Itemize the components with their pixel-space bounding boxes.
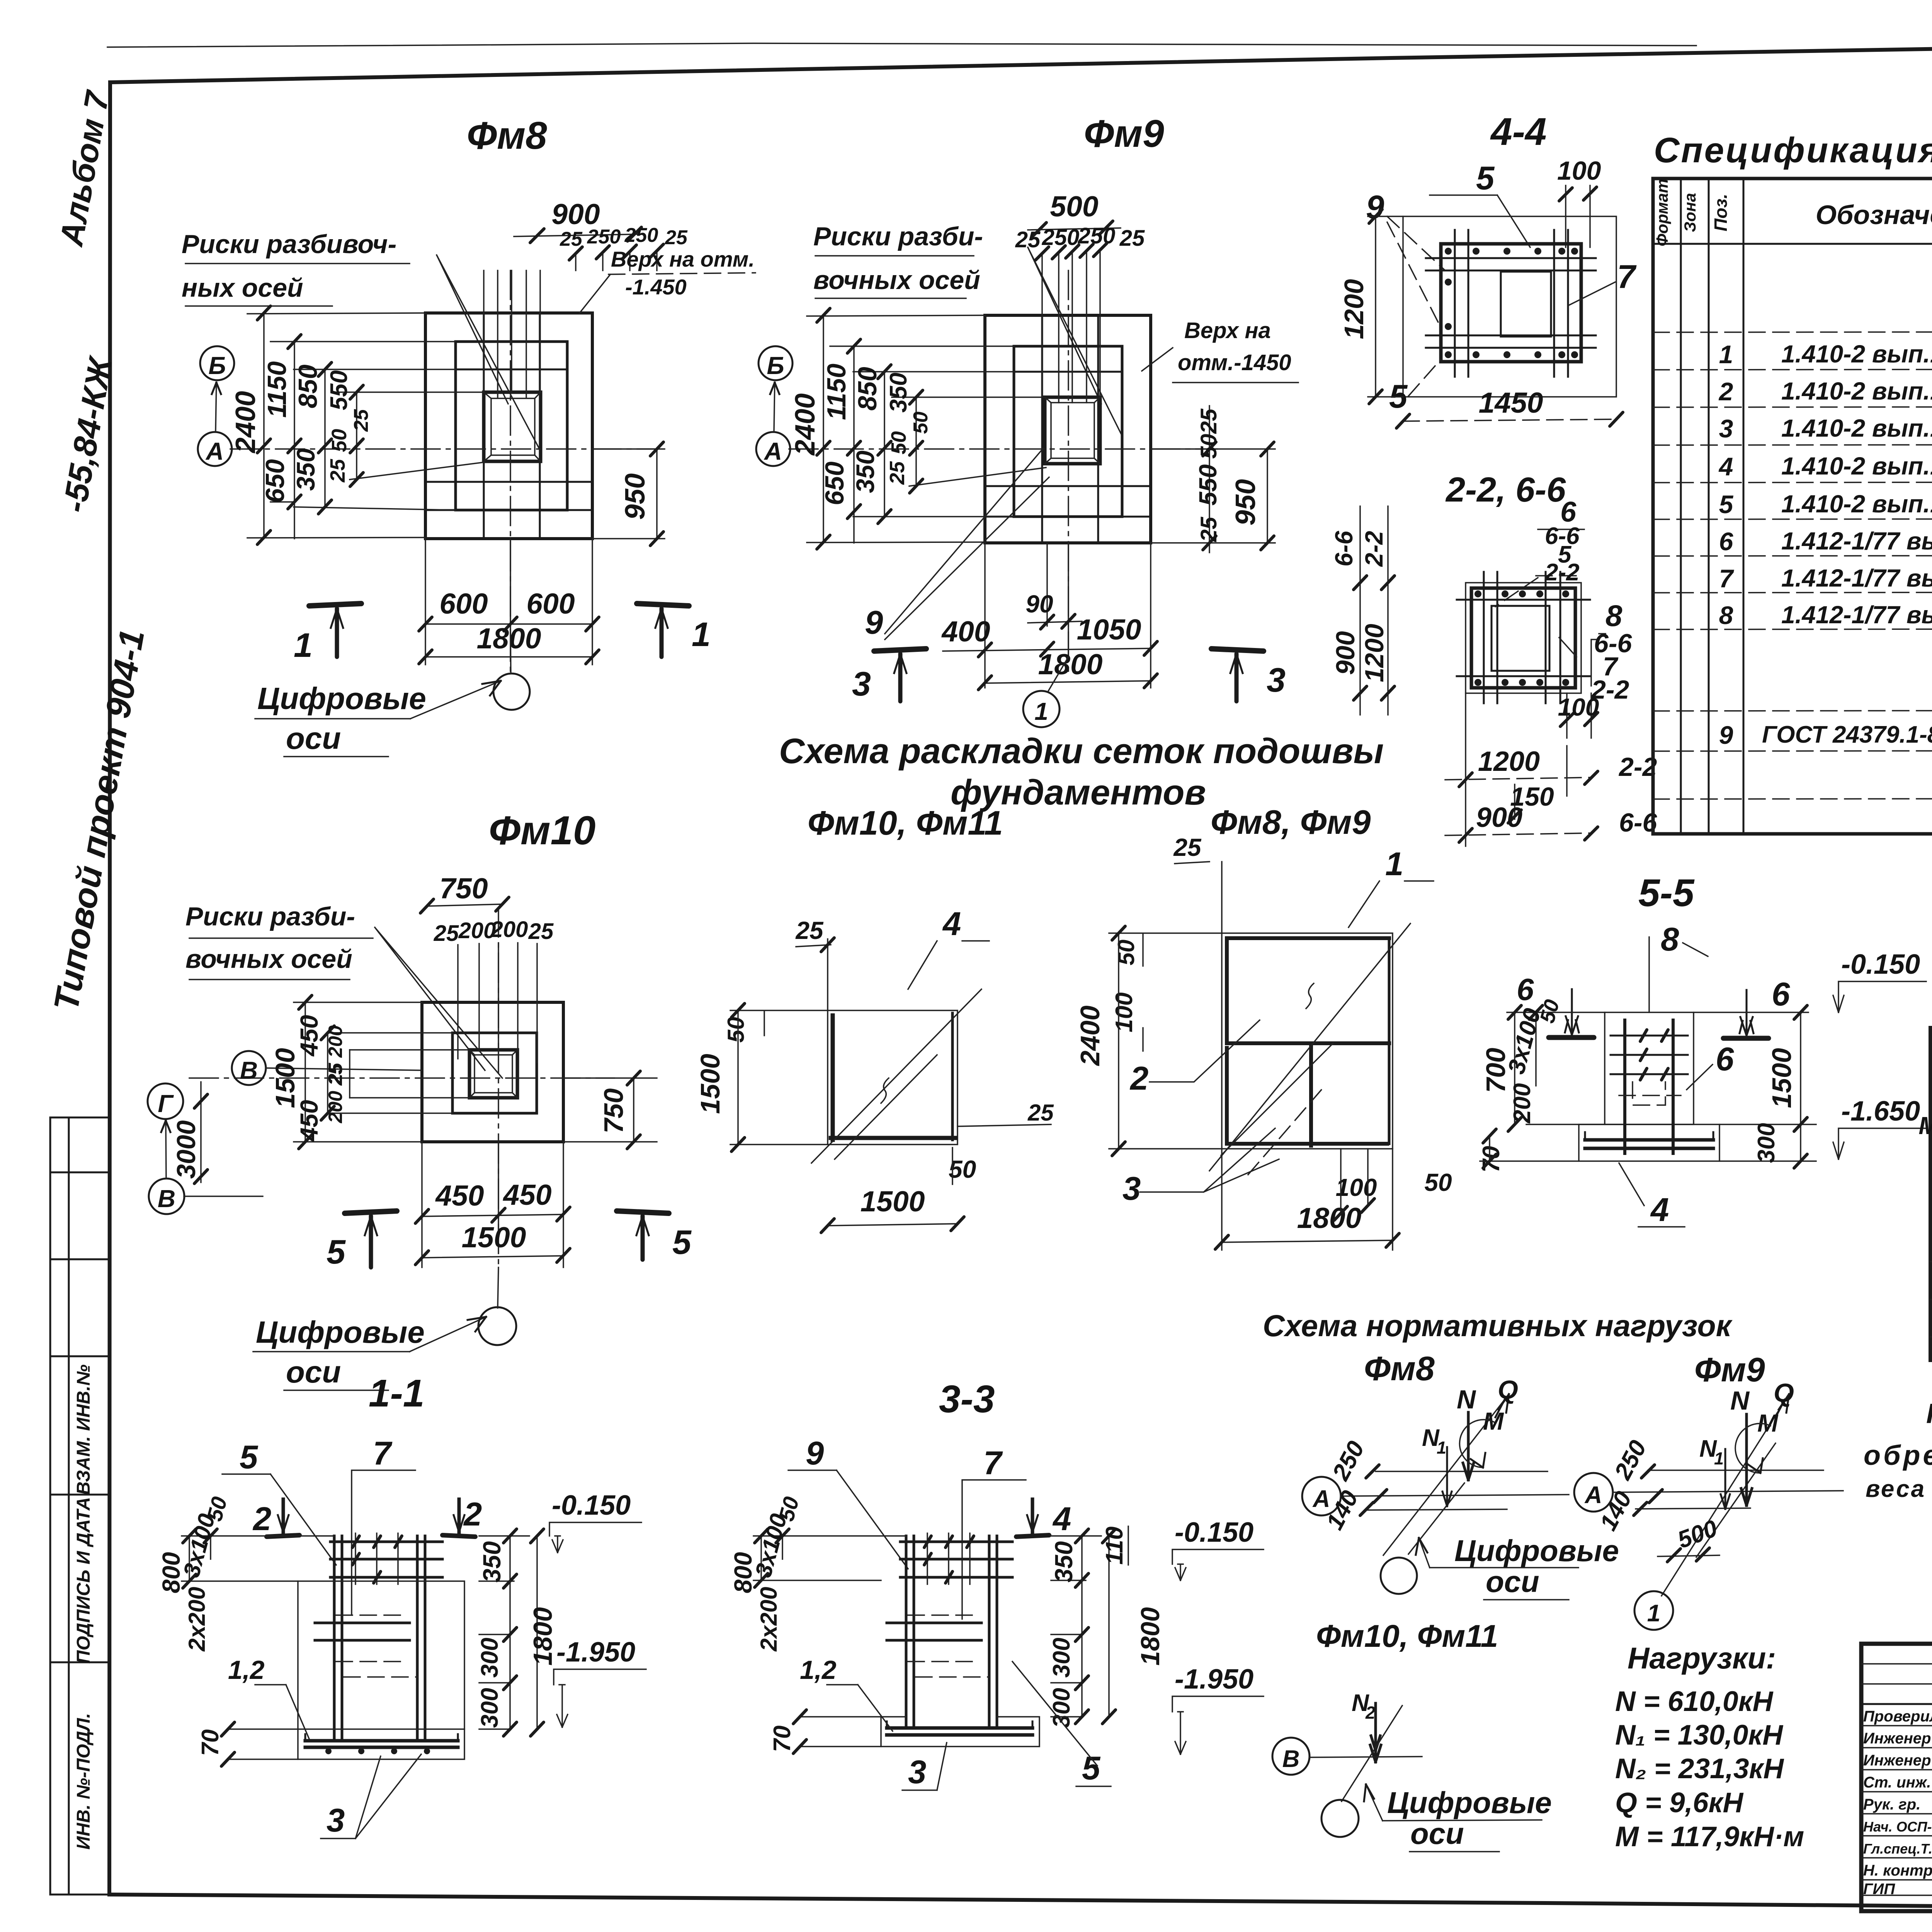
band lines [425,369,592,510]
svg-text:1800: 1800 [1038,648,1103,680]
frame top [110,36,1932,82]
svg-text:8: 8 [1719,601,1733,629]
svg-text:Схема раскладки сеток подошвы: Схема раскладки сеток подошвы [779,731,1384,771]
svg-text:Марка элемента: Марка элемента [1918,1112,1932,1139]
svg-text:Цифровые: Цифровые [1454,1534,1619,1568]
svg-text:обрезу фундаментов без учет: обрезу фундаментов без учета нагрузок на… [1864,1440,1932,1471]
svg-text:4: 4 [942,906,961,942]
svg-text:1-1: 1-1 [369,1372,425,1415]
right dims [1694,1012,1816,1161]
svg-text:3: 3 [1122,1170,1141,1207]
svg-text:7: 7 [373,1435,393,1472]
svg-text:Проверил: Проверил [1863,1708,1932,1725]
svg-text:2-2: 2-2 [1360,531,1388,567]
svg-text:250: 250 [624,224,658,247]
svg-text:1: 1 [1714,1449,1724,1468]
svg-text:25: 25 [326,459,349,483]
svg-text:1.410-2 вып.1: 1.410-2 вып.1 [1781,377,1932,405]
mesh mid dashed [315,1623,410,1640]
svg-text:1800: 1800 [1297,1202,1362,1234]
svg-text:1,2: 1,2 [228,1655,265,1685]
svg-text:2: 2 [252,1501,271,1537]
svg-text:Фм9: Фм9 [1084,112,1164,155]
vertical bars [1625,1020,1673,1153]
left dims [294,1002,422,1142]
svg-text:ВЗАМ. ИНВ.№: ВЗАМ. ИНВ.№ [73,1364,94,1495]
svg-text:2-2, 6-6: 2-2, 6-6 [1445,471,1566,509]
svg-text:50: 50 [1424,1168,1452,1196]
svg-text:-1.950: -1.950 [556,1637,635,1668]
svg-text:350: 350 [291,448,320,491]
svg-text:7: 7 [1617,259,1637,295]
svg-text:100: 100 [1336,1173,1377,1201]
svg-text:900: 900 [1476,802,1522,833]
svg-text:1500: 1500 [1767,1048,1797,1108]
svg-text:оси: оси [1486,1565,1539,1599]
plan step [456,342,567,510]
svg-text:25: 25 [1196,408,1221,434]
svg-text:отм.-1450: отм.-1450 [1178,350,1291,375]
svg-text:оси: оси [1410,1816,1464,1850]
svg-text:2: 2 [463,1496,482,1533]
svg-text:6-6: 6-6 [1330,531,1358,566]
svg-text:850: 850 [293,364,323,408]
svg-text:2x200: 2x200 [756,1587,782,1652]
svg-text:1200: 1200 [1360,624,1389,682]
svg-text:2-2: 2-2 [1544,559,1580,586]
axis circles [200,346,234,380]
svg-text:Нагрузки:: Нагрузки: [1628,1641,1776,1675]
2 arrows [267,1535,299,1537]
bolt mesh square [1441,244,1581,362]
right dim 950 [592,449,665,539]
svg-text:6: 6 [1716,1041,1734,1078]
svg-text:450: 450 [295,1015,323,1057]
svg-text:100: 100 [1557,156,1601,185]
plan outer [985,315,1151,543]
svg-text:3: 3 [1719,414,1733,443]
svg-text:70: 70 [197,1730,224,1756]
svg-text:25: 25 [1119,226,1145,251]
4 arrow [1016,1535,1049,1537]
svg-text:3-3: 3-3 [939,1378,995,1421]
svg-text:Фм10: Фм10 [489,808,595,853]
svg-text:900: 900 [1331,631,1360,675]
svg-text:70: 70 [769,1726,796,1752]
svg-text:Зона: Зона [1681,193,1699,232]
svg-text:300: 300 [1048,1638,1075,1677]
svg-text:М = 117,9кН·м: М = 117,9кН·м [1615,1821,1804,1852]
svg-text:25: 25 [434,921,459,946]
svg-text:-1.450: -1.450 [625,275,687,299]
verticals [1681,179,1932,834]
svg-text:ПОДПИСЬ И ДАТА: ПОДПИСЬ И ДАТА [73,1497,94,1663]
svg-text:250: 250 [587,226,621,248]
svg-text:9: 9 [1719,721,1733,749]
svg-text:1,2: 1,2 [800,1655,837,1685]
svg-text:оси: оси [286,1355,341,1389]
right dims rotated [1151,449,1275,543]
svg-text:Фм8, Фм9: Фм8, Фм9 [1211,803,1371,841]
svg-text:550: 550 [326,370,352,410]
svg-text:50: 50 [328,429,351,452]
svg-text:N₁ = 130,0кН: N₁ = 130,0кН [1615,1719,1783,1751]
svg-text:Гл.спец.Т.О.: Гл.спец.Т.О. [1863,1841,1932,1857]
outer thin square [1403,216,1616,397]
svg-text:6: 6 [1719,527,1734,556]
plan [422,1002,563,1142]
svg-text:350: 350 [1050,1541,1078,1583]
svg-text:350: 350 [851,451,879,493]
svg-text:1800: 1800 [477,622,541,655]
svg-text:-0.150: -0.150 [552,1490,631,1521]
svg-text:9: 9 [865,604,883,641]
svg-text:N₂ = 231,3кН: N₂ = 231,3кН [1615,1753,1784,1784]
footing [1579,1124,1719,1161]
left dims [182,1536,334,1581]
svg-text:4: 4 [1718,452,1733,481]
svg-text:Инженер: Инженер [1863,1730,1931,1747]
svg-text:5: 5 [1082,1750,1101,1787]
svg-text:3000: 3000 [172,1120,201,1179]
svg-text:4: 4 [1650,1192,1669,1228]
svg-text:1800: 1800 [528,1607,558,1665]
svg-text:1.410-2 вып.1: 1.410-2 вып.1 [1781,414,1932,442]
svg-text:Верх на: Верх на [1184,318,1271,343]
svg-text:1: 1 [294,626,313,664]
svg-text:Риски разби-: Риски разби- [185,902,355,931]
svg-text:350: 350 [478,1541,506,1583]
svg-text:Рук. гр.: Рук. гр. [1863,1796,1920,1813]
frame left [109,82,110,1895]
svg-text:50: 50 [723,1017,749,1043]
svg-text:6: 6 [1517,972,1534,1007]
svg-text:1500: 1500 [695,1054,725,1114]
svg-text:Формат: Формат [1653,179,1671,246]
svg-text:5: 5 [1476,160,1495,197]
svg-text:90: 90 [1026,590,1053,618]
svg-text:1: 1 [1647,1600,1660,1627]
svg-text:Поз.: Поз. [1711,194,1731,231]
left dims [753,1536,906,1580]
svg-text:1.410-2 вып.1: 1.410-2 вып.1 [1781,340,1932,368]
svg-text:5: 5 [1719,490,1734,519]
svg-text:1.410-2 вып.1: 1.410-2 вып.1 [1781,452,1932,480]
column [1605,1012,1694,1124]
svg-text:А: А [764,437,782,465]
svg-text:750: 750 [439,872,488,905]
right scheme Fm9 [1574,1473,1613,1512]
ground marks with 6 arrows [1549,1035,1594,1040]
svg-text:Риски разби-: Риски разби- [813,222,983,251]
svg-text:1500: 1500 [462,1221,526,1253]
svg-text:Фм8: Фм8 [467,114,547,157]
section marks 3 [874,649,926,651]
svg-text:450: 450 [502,1179,551,1211]
signature rows [1861,1664,1932,1684]
svg-text:Ст. инж.: Ст. инж. [1863,1774,1931,1791]
svg-text:25: 25 [795,917,824,944]
svg-text:4: 4 [1052,1501,1071,1537]
svg-text:5: 5 [240,1439,259,1476]
svg-text:25: 25 [1015,227,1041,252]
svg-text:Б: Б [208,352,226,379]
svg-text:750: 750 [599,1088,629,1134]
svg-text:Б: Б [767,352,784,379]
svg-text:300: 300 [476,1638,503,1677]
svg-text:3: 3 [327,1802,345,1839]
svg-text:1.410-2 вып.1: 1.410-2 вып.1 [1781,490,1932,518]
svg-text:450: 450 [295,1100,323,1142]
svg-text:600: 600 [439,587,488,620]
svg-text:1150: 1150 [822,364,851,420]
svg-text:Схема нормативных нагрузок: Схема нормативных нагрузок [1263,1308,1733,1343]
svg-text:1500: 1500 [861,1185,925,1218]
svg-text:1150: 1150 [262,361,292,418]
svg-text:50: 50 [1113,940,1139,966]
svg-text:оси: оси [286,721,341,755]
svg-text:ных осей: ных осей [182,273,303,303]
svg-text:2: 2 [1365,1703,1375,1723]
svg-text:25: 25 [350,409,372,432]
light row lines [1653,331,1932,799]
svg-text:650: 650 [260,459,290,503]
svg-text:1: 1 [1437,1438,1446,1458]
svg-text:Нач. ОСП-1: Нач. ОСП-1 [1863,1819,1932,1835]
svg-text:3: 3 [908,1754,926,1791]
svg-text:Фм9: Фм9 [1694,1350,1765,1389]
svg-text:Фм10, Фм11: Фм10, Фм11 [1316,1619,1498,1654]
bottom dims [1567,693,1591,738]
svg-text:Верх на отм.: Верх на отм. [611,247,755,271]
svg-text:7: 7 [983,1445,1003,1481]
svg-text:950: 950 [1230,479,1261,526]
svg-text:4-4: 4-4 [1490,110,1547,153]
frame bottom [109,1895,1932,1912]
svg-text:50: 50 [910,412,932,434]
svg-text:1: 1 [1719,340,1733,369]
svg-text:2-2: 2-2 [1618,752,1657,782]
column pocket [484,392,541,461]
axis lines [230,448,657,450]
svg-text:1200: 1200 [1339,279,1369,339]
top tear line [107,43,1696,47]
svg-text:100: 100 [1558,693,1599,721]
svg-text:Фм10, Фм11: Фм10, Фм11 [808,804,1003,842]
svg-text:200: 200 [1509,1083,1536,1123]
column bars [334,1536,425,1739]
plan outer [425,313,592,539]
svg-text:2: 2 [1718,377,1733,406]
footing bars [305,1741,458,1747]
svg-text:350: 350 [885,372,912,412]
svg-text:1050: 1050 [1077,613,1141,646]
svg-text:450: 450 [435,1179,484,1212]
svg-text:8: 8 [1661,921,1679,958]
svg-text:ИНВ. №-ПОДЛ.: ИНВ. №-ПОДЛ. [73,1713,94,1850]
svg-text:2: 2 [1129,1060,1148,1097]
svg-text:50: 50 [1196,434,1221,459]
axis circle 1 [1023,691,1060,727]
svg-text:вочных осей: вочных осей [185,944,352,974]
pit outline [298,1581,464,1729]
bottom dims [422,1142,563,1267]
svg-text:Цифровые: Цифровые [1387,1786,1552,1820]
svg-text:500: 500 [1050,190,1098,223]
svg-text:-1.950: -1.950 [1175,1664,1253,1695]
svg-text:Обозначение: Обозначение [1816,200,1932,230]
svg-text:А: А [1312,1486,1330,1512]
svg-text:Q: Q [1498,1375,1518,1405]
svg-text:25: 25 [528,919,554,944]
svg-text:100: 100 [1111,992,1138,1032]
svg-text:Г: Г [158,1090,174,1117]
svg-text:550: 550 [1194,464,1222,506]
svg-text:5: 5 [327,1233,346,1271]
svg-text:Цифровые: Цифровые [256,1315,425,1349]
svg-text:Q = 9,6кН: Q = 9,6кН [1615,1787,1743,1818]
left stamp column [47,87,152,1895]
bottom dims [985,543,1151,688]
section marks 1-1 [309,604,361,606]
svg-text:7: 7 [1719,564,1735,593]
axis circles [232,1051,266,1085]
svg-text:5-5: 5-5 [1638,871,1695,915]
right grid square Fm8 Fm9 [1222,933,1393,1149]
svg-text:2400: 2400 [790,393,821,456]
svg-text:Фм8: Фм8 [1364,1349,1435,1388]
svg-text:850: 850 [853,367,882,411]
svg-text:1200: 1200 [1478,746,1540,777]
svg-text:300: 300 [1753,1123,1780,1163]
svg-text:200: 200 [490,917,528,942]
svg-text:950: 950 [620,473,651,520]
left grid square [828,1010,957,1145]
svg-text:2400: 2400 [230,391,261,454]
svg-text:В: В [158,1185,175,1213]
svg-text:25: 25 [1173,833,1202,861]
svg-text:1.412-1/77 вып.3: 1.412-1/77 вып.3 [1781,527,1932,555]
svg-text:2x200: 2x200 [184,1587,210,1652]
bolt mesh square [1466,583,1581,693]
svg-text:2400: 2400 [1075,1005,1105,1066]
svg-text:200 25: 200 25 [325,1063,346,1123]
svg-text:Инженер: Инженер [1863,1752,1931,1769]
svg-text:1500: 1500 [270,1048,300,1108]
svg-text:-0.150: -0.150 [1175,1517,1253,1548]
svg-text:1.412-1/77 вып.3: 1.412-1/77 вып.3 [1781,601,1932,629]
svg-text:50: 50 [887,431,910,454]
svg-text:650: 650 [820,461,849,505]
svg-text:1: 1 [692,615,711,653]
left dim chains [264,313,357,539]
svg-text:9: 9 [806,1435,824,1472]
mesh horizontals [1611,1036,1688,1074]
svg-text:вочных осей: вочных осей [813,265,980,295]
svg-text:250: 250 [1078,223,1116,248]
svg-text:6: 6 [1772,976,1790,1013]
svg-text:1: 1 [1034,697,1048,725]
svg-text:Нагрузки на фундаменты даны: Нагрузки на фундаменты даны по верхнему [1926,1398,1932,1429]
svg-text:110: 110 [1101,1527,1128,1565]
footing bars [1585,1140,1713,1148]
svg-text:1800: 1800 [1136,1607,1165,1665]
svg-text:А: А [205,437,224,465]
svg-text:1450: 1450 [1479,386,1543,419]
bottom dims [425,539,592,665]
svg-text:3: 3 [1267,661,1286,699]
svg-text:N: N [1730,1386,1750,1415]
svg-text:А: А [1584,1482,1602,1509]
svg-text:25: 25 [665,226,688,249]
svg-text:1.412-1/77 вып.3: 1.412-1/77 вып.3 [1781,564,1932,592]
svg-text:3: 3 [852,665,871,703]
svg-text:веса фундамента и грунта на: веса фундамента и грунта на его уступах. [1866,1476,1932,1502]
left scheme Fm8 [1302,1477,1341,1515]
svg-text:600: 600 [526,587,575,620]
svg-text:5: 5 [672,1223,692,1261]
svg-text:В: В [1282,1746,1300,1772]
svg-text:25: 25 [560,228,583,250]
svg-text:ГОСТ 24379.1-80: ГОСТ 24379.1-80 [1762,721,1932,748]
svg-text:25: 25 [1196,517,1221,542]
svg-text:Q: Q [1774,1378,1794,1408]
svg-text:Н. контр.: Н. контр. [1863,1862,1932,1879]
svg-text:300: 300 [476,1688,503,1728]
svg-text:-0.150: -0.150 [1841,949,1920,980]
svg-text:-1.650: -1.650 [1841,1096,1920,1127]
header [1653,211,1932,244]
svg-text:25: 25 [1027,1100,1054,1126]
left dims [1507,1012,1605,1124]
mesh top [330,1542,442,1577]
section marks 5 [345,1211,397,1213]
svg-text:В: В [240,1056,258,1084]
svg-text:N: N [1457,1385,1476,1414]
svg-text:N = 610,0кН: N = 610,0кН [1615,1686,1774,1717]
svg-text:Спецификация к фундаментам: Спецификация к фундаментам Фм8, Фм9, Фм1… [1654,131,1932,170]
svg-text:ГИП: ГИП [1863,1881,1895,1898]
right dim 750 [563,1078,657,1142]
svg-text:25: 25 [886,461,909,485]
svg-text:1: 1 [1385,846,1403,883]
svg-text:Цифровые: Цифровые [257,681,426,716]
svg-text:400: 400 [941,615,990,648]
svg-text:8: 8 [1605,599,1622,633]
svg-text:Риски разбивоч-: Риски разбивоч- [182,230,396,259]
table outline [1653,179,1932,834]
